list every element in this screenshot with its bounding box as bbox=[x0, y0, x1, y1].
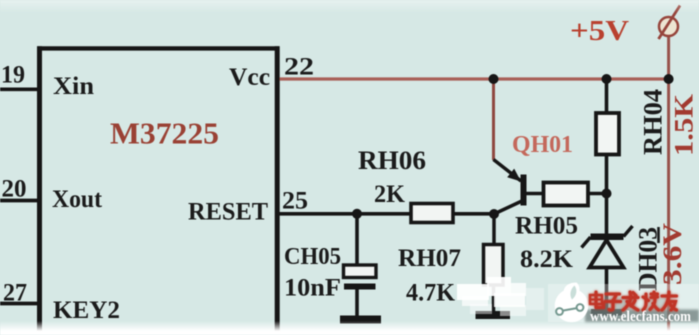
svg-text:www.elecfans.com: www.elecfans.com bbox=[590, 309, 691, 325]
svg-text:RH04: RH04 bbox=[639, 89, 668, 155]
svg-text:M37225: M37225 bbox=[110, 116, 219, 151]
svg-text:8.2K: 8.2K bbox=[520, 246, 574, 273]
svg-text:QH01: QH01 bbox=[512, 132, 573, 158]
svg-text:Xout: Xout bbox=[52, 186, 103, 213]
svg-text:1.5K: 1.5K bbox=[670, 93, 699, 156]
svg-text:CH05: CH05 bbox=[284, 244, 341, 270]
svg-text:19: 19 bbox=[1, 62, 25, 89]
svg-text:3.6V: 3.6V bbox=[658, 223, 687, 285]
svg-text:RESET: RESET bbox=[188, 198, 268, 225]
svg-text:4.7K: 4.7K bbox=[406, 280, 456, 307]
svg-text:RH06: RH06 bbox=[358, 146, 426, 175]
svg-text:10nF: 10nF bbox=[284, 275, 341, 302]
svg-text:Vcc: Vcc bbox=[229, 64, 270, 91]
svg-text:RH07: RH07 bbox=[398, 245, 461, 272]
svg-text:+5V: +5V bbox=[570, 16, 629, 47]
svg-text:20: 20 bbox=[2, 176, 27, 203]
svg-text:Xin: Xin bbox=[53, 73, 94, 100]
svg-text:27: 27 bbox=[3, 280, 27, 307]
svg-text:22: 22 bbox=[284, 54, 314, 81]
svg-text:25: 25 bbox=[282, 188, 308, 215]
svg-text:RH05: RH05 bbox=[515, 213, 578, 240]
svg-text:2K: 2K bbox=[374, 181, 406, 208]
